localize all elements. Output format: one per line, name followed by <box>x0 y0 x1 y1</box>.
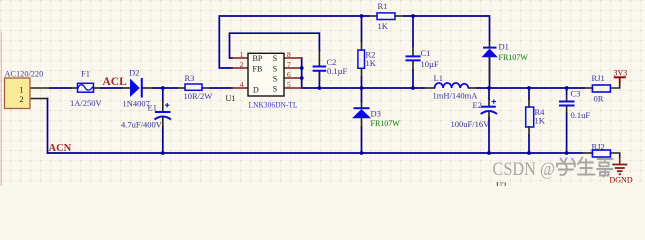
svg-text:FR107W: FR107W <box>371 119 401 128</box>
svg-text:10R/2W: 10R/2W <box>184 91 213 101</box>
svg-text:1K: 1K <box>378 21 389 31</box>
svg-text:1: 1 <box>20 85 24 94</box>
svg-text:RJ1: RJ1 <box>592 73 605 83</box>
svg-text:D3: D3 <box>371 109 381 119</box>
svg-text:8: 8 <box>287 50 291 59</box>
svg-text:CSDN @: CSDN @ <box>493 160 556 180</box>
svg-text:S: S <box>273 74 277 83</box>
svg-text:DGND: DGND <box>610 176 633 185</box>
svg-text:D: D <box>253 85 259 94</box>
svg-text:ACN: ACN <box>49 143 72 154</box>
svg-text:LNK306DN-TL: LNK306DN-TL <box>249 101 298 110</box>
svg-text:D2: D2 <box>129 68 139 78</box>
svg-text:F1: F1 <box>81 69 90 79</box>
svg-text:1N4007: 1N4007 <box>123 99 150 109</box>
svg-text:7: 7 <box>287 60 291 69</box>
svg-text:1: 1 <box>240 50 244 59</box>
svg-text:ACL: ACL <box>103 76 128 88</box>
svg-text:1A/250V: 1A/250V <box>70 98 103 108</box>
svg-text:R1: R1 <box>378 1 388 11</box>
svg-text:FB: FB <box>253 64 263 73</box>
svg-text:C3: C3 <box>571 89 581 99</box>
svg-text:2: 2 <box>240 60 244 69</box>
svg-text:S: S <box>273 54 277 63</box>
svg-text:4.7uF/400V: 4.7uF/400V <box>121 120 163 130</box>
svg-text:E2: E2 <box>473 100 482 110</box>
svg-text:S: S <box>273 64 277 73</box>
svg-text:C1: C1 <box>421 48 431 58</box>
svg-text:100uF/16V: 100uF/16V <box>451 119 491 129</box>
svg-text:0.1µF: 0.1µF <box>327 66 348 76</box>
svg-text:1mH/140mA: 1mH/140mA <box>433 91 479 101</box>
svg-text:AC120/220: AC120/220 <box>5 69 44 78</box>
svg-text:6: 6 <box>287 70 291 79</box>
svg-text:0R: 0R <box>594 94 604 104</box>
svg-text:4: 4 <box>240 80 244 89</box>
svg-text:L1: L1 <box>434 73 443 83</box>
svg-text:FR107W: FR107W <box>499 53 529 62</box>
svg-text:R3: R3 <box>185 73 195 83</box>
svg-text:RJ2: RJ2 <box>592 142 605 152</box>
svg-text:D1: D1 <box>499 42 509 52</box>
svg-text:2: 2 <box>20 95 24 104</box>
svg-text:10µF: 10µF <box>421 59 439 69</box>
svg-text:S: S <box>273 85 277 94</box>
svg-text:0.1uF: 0.1uF <box>571 110 591 120</box>
svg-text:BP: BP <box>253 54 263 63</box>
svg-text:5: 5 <box>287 80 291 89</box>
svg-text:U1: U1 <box>226 94 236 103</box>
svg-text:1K: 1K <box>366 58 377 68</box>
svg-text:3V3: 3V3 <box>614 69 628 78</box>
svg-text:U2: U2 <box>496 180 506 186</box>
svg-text:1K: 1K <box>535 115 546 125</box>
svg-text:E1: E1 <box>148 103 157 113</box>
